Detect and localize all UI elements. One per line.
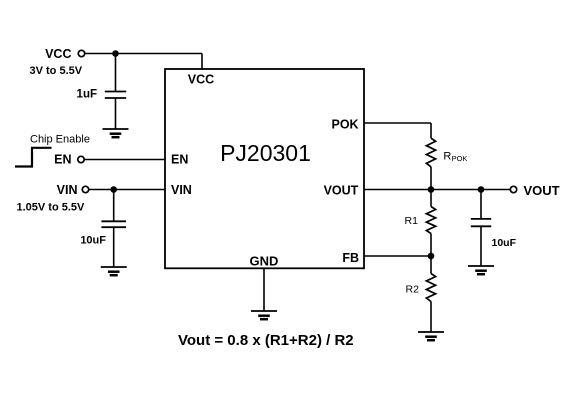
ground under C2: [101, 267, 127, 275]
node Chip Enable label: [30, 133, 90, 145]
wire EN to IC: [84, 159, 165, 161]
node VOUT terminal: [510, 183, 559, 198]
wire POK down to RPOK: [430, 123, 432, 138]
wire R1 to FB: [430, 234, 432, 257]
wire C2 to ground: [113, 227, 115, 267]
svg-text:3V to 5.5V: 3V to 5.5V: [30, 65, 83, 77]
ground under R2: [418, 332, 444, 340]
wire VOUT line: [364, 189, 510, 191]
capacitor C2 10uF: [80, 221, 126, 246]
wire VOUT to R1: [430, 190, 432, 207]
wire VIN to IC: [89, 189, 165, 191]
node VCC terminal: [30, 47, 85, 77]
wire VOUT to C3: [480, 190, 482, 219]
svg-text:R2: R2: [406, 284, 420, 296]
wire VIN to C2: [113, 190, 115, 222]
wire C3 to ground: [480, 226, 482, 266]
pin FB label: [342, 251, 359, 265]
pin VOUT label: [324, 183, 359, 197]
svg-text:PJ20301: PJ20301: [220, 140, 311, 166]
svg-text:VOUT: VOUT: [324, 183, 359, 197]
wire R2 to ground: [430, 302, 432, 333]
capacitor C1 1uF: [77, 89, 127, 101]
svg-text:VCC: VCC: [188, 73, 214, 87]
svg-text:10uF: 10uF: [80, 235, 106, 247]
svg-text:POK: POK: [452, 154, 468, 163]
junction VOUT-RPOK node: [428, 186, 435, 193]
wire C1 to ground: [115, 98, 117, 129]
svg-text:FB: FB: [342, 251, 359, 265]
capacitor C3 10uF: [471, 219, 517, 249]
wire VCC vertical into IC: [201, 54, 203, 70]
ground under C3: [468, 266, 494, 274]
pin VIN label: [171, 183, 192, 197]
svg-text:Vout = 0.8 x (R1+R2) / R2: Vout = 0.8 x (R1+R2) / R2: [178, 332, 354, 349]
svg-text:GND: GND: [250, 253, 279, 268]
node VIN terminal: [17, 183, 89, 214]
wire RPOK to VOUT line: [430, 167, 432, 190]
pin GND label: [250, 253, 279, 268]
node EN terminal: [54, 153, 84, 167]
svg-text:VCC: VCC: [45, 47, 71, 61]
svg-text:POK: POK: [332, 118, 359, 132]
svg-text:10uF: 10uF: [492, 237, 517, 249]
svg-text:VOUT: VOUT: [524, 183, 560, 198]
chip-enable step waveform symbol: [15, 148, 52, 167]
svg-text:1uF: 1uF: [77, 89, 97, 101]
ground under IC GND: [251, 311, 277, 319]
svg-text:EN: EN: [171, 153, 188, 167]
wire FB horizontal: [364, 255, 431, 257]
pin VCC label: [188, 73, 214, 87]
junction VOUT-C3 node: [478, 186, 485, 193]
ground under C1: [103, 129, 129, 137]
op-amp U1 PJ20301 IC body: [165, 69, 364, 268]
resistor RPOK: [426, 138, 467, 167]
junction VIN node: [110, 186, 117, 193]
wire GND pin down: [263, 268, 265, 311]
svg-text:R: R: [443, 151, 451, 163]
pin EN label: [171, 153, 188, 167]
svg-text:EN: EN: [54, 153, 71, 167]
svg-text:1.05V to 5.5V: 1.05V to 5.5V: [17, 202, 86, 214]
junction FB node: [428, 253, 435, 260]
pin POK label: [332, 118, 359, 132]
wire VCC horizontal: [85, 53, 202, 55]
formula label Vout = 0.8 x (R1+R2) / R2: [178, 332, 354, 349]
resistor R2: [406, 274, 436, 302]
wire VCC to C1: [115, 54, 117, 92]
junction VCC node: [112, 50, 119, 57]
wire FB to R2: [430, 256, 432, 274]
wire POK horizontal: [364, 122, 431, 124]
svg-text:VIN: VIN: [171, 183, 192, 197]
svg-text:VIN: VIN: [57, 183, 78, 197]
svg-text:R1: R1: [405, 215, 419, 227]
svg-text:Chip Enable: Chip Enable: [30, 133, 90, 145]
resistor R1: [405, 207, 436, 234]
